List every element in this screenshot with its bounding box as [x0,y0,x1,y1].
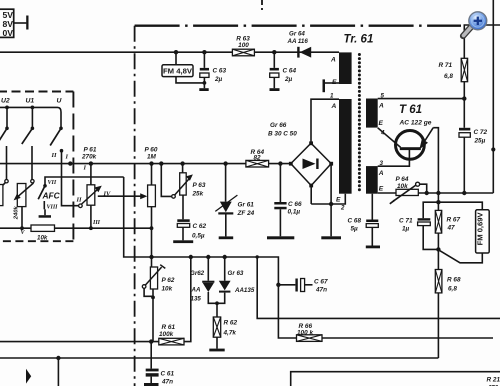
svg-text:U2: U2 [1,98,10,105]
magnifier icon [463,12,487,36]
svg-text:25µ: 25µ [474,138,486,145]
svg-text:B 30 C 50: B 30 C 50 [268,131,297,138]
svg-text:I: I [65,154,69,161]
svg-text:R 68: R 68 [447,277,461,284]
potentiometer P60 [148,161,156,257]
svg-text:AA135: AA135 [234,287,255,294]
svg-text:82: 82 [254,154,262,161]
svg-text:4: 4 [380,130,385,137]
resistor R68 [435,270,442,359]
rail y257 [124,177,297,338]
svg-text:4,7k: 4,7k [223,330,237,337]
svg-text:FM 0,69V: FM 0,69V [476,212,485,246]
svg-text:E: E [332,79,337,86]
wire: bottom bus y371.7 [291,372,500,386]
svg-text:2: 2 [340,205,345,212]
svg-text:E: E [379,186,384,193]
svg-text:47n: 47n [315,287,327,294]
node feeder [256,255,259,258]
svg-text:Gr 63: Gr 63 [228,270,244,277]
capacitor C62 [173,195,193,243]
potentiometer P63 [159,161,193,198]
svg-text:135: 135 [191,296,202,303]
svg-text:100 k: 100 k [297,330,313,337]
resistor R67 [435,193,441,270]
diode Gr62 [202,257,217,303]
wire: line A y341.6 [0,257,191,342]
svg-text:E: E [336,197,341,204]
svg-text:C 68: C 68 [348,217,362,224]
svg-text:0,5µ: 0,5µ [192,232,205,239]
node I [68,161,72,165]
terminal bar [26,16,28,30]
svg-text:A: A [331,103,337,110]
network C71 R67 top rail [423,202,482,218]
node P62 top [149,255,153,259]
wire: secondary E to output rail [378,192,494,194]
diode Gr64 [297,47,311,58]
svg-text:C 64: C 64 [283,68,297,75]
transformer secondary lower winding [366,166,378,194]
svg-text:2µ: 2µ [214,76,223,83]
svg-text:E: E [379,120,384,127]
wire: terminal 5 to R71 [378,98,465,100]
measuring point FM 0,69V box [438,210,489,263]
svg-text:25k: 25k [192,190,204,197]
wire: winding1 E to terminal [325,82,339,84]
capacitor C71 [418,218,439,249]
svg-text:R 61: R 61 [162,324,176,331]
svg-text:C 67: C 67 [314,279,328,286]
transformer secondary upper winding [366,99,378,128]
svg-text:Gr62: Gr62 [190,270,205,277]
svg-text:Gr 61: Gr 61 [238,202,255,209]
resistor R62 [209,303,224,351]
svg-text:III: III [92,220,101,226]
svg-text:C 66: C 66 [288,201,302,208]
node Gr63 top [223,255,227,259]
wire: feeder y318.4 [257,257,500,318]
capacitor C63 [200,50,209,88]
switch U2 [0,106,9,180]
svg-text:FM 4,8V: FM 4,8V [163,66,193,75]
diode (cut, next stage) [26,369,31,384]
wire: FM4.8V stem [175,52,177,65]
wire: V rail [0,227,152,229]
wire: branch down [57,358,59,386]
potentiometer P61 [79,161,102,230]
frame top right solid [464,25,500,58]
svg-text:6,8: 6,8 [448,286,457,293]
svg-text:3: 3 [380,160,384,167]
resistor R61 [159,338,184,345]
wire: IV link with arrow [98,193,148,199]
potentiometer P62 [142,257,165,342]
dash-dot divider top [261,0,263,11]
node Gr62 top [206,255,210,259]
potentiometer P64 [390,182,427,204]
voltage box terminal wire [14,22,27,24]
svg-text:5: 5 [381,93,385,100]
svg-text:R 71: R 71 [439,62,453,69]
node bridge bottom rail [329,202,333,206]
node C72 foot [462,191,466,195]
svg-text:47n: 47n [161,379,173,386]
svg-text:6,8: 6,8 [444,73,453,80]
svg-text:I: I [83,165,87,172]
svg-text:Tr. 61: Tr. 61 [344,34,374,46]
transformer core [358,53,361,191]
bridge rectifier Gr66 [289,141,333,187]
svg-text:270k: 270k [81,153,97,160]
wire: base to winding 3 [378,150,410,166]
svg-text:R 67: R 67 [447,217,461,224]
contact circle U2 [5,180,8,183]
transformer Tr61 primary lower winding [339,99,352,194]
node R61 top [189,255,193,259]
svg-text:VII: VII [48,180,57,186]
svg-text:AFC: AFC [42,191,61,201]
svg-text:10k: 10k [162,286,173,293]
capacitor C64 [270,50,279,88]
svg-text:C 62: C 62 [193,223,207,230]
node at FM4.8V stem [174,50,178,54]
capacitor C68 [366,194,380,249]
module border dash-dot left [134,26,136,386]
svg-text:Gr 66: Gr 66 [270,122,287,129]
wire: terminal 2 [311,194,345,204]
contact circle U1 [31,180,34,183]
wire: bridge right to ground [330,164,332,237]
svg-text:A: A [330,57,336,64]
svg-text:C 63: C 63 [213,68,227,75]
svg-text:100k: 100k [159,331,174,338]
switch unit dashed box [0,91,73,93]
resistor R64 [246,160,269,167]
svg-text:Gr 64: Gr 64 [289,31,305,38]
transistor T61 [396,128,434,160]
wire: supply line y52 [0,51,339,53]
svg-text:1M: 1M [147,153,157,160]
ground C64 [270,88,280,91]
switch bank rail [0,107,61,128]
capacitor C61 [144,339,159,386]
svg-text:10k: 10k [37,235,48,242]
svg-text:1µ: 1µ [402,226,410,233]
wire: emitter down [433,128,438,193]
node P64 wiper tie [425,191,429,195]
wire: collector to winding 4 [378,128,401,148]
svg-text:A: A [378,170,384,177]
node emitter rail [436,191,440,195]
svg-text:1: 1 [330,93,334,100]
terminal bar winding1 E [323,79,326,92]
node C71 top [436,200,440,204]
svg-text:P 63: P 63 [193,182,206,189]
svg-text:II: II [76,197,83,204]
node R71 bottom [462,96,466,100]
svg-text:100: 100 [238,42,249,49]
node C71 bottom [436,247,440,251]
wire: bridge bottom [310,186,312,205]
svg-text:C 61: C 61 [161,371,175,378]
wire: main bus y163.6 [0,163,291,165]
resistor R66 [297,335,494,342]
frame right vertical [492,0,494,193]
node diode junction [215,301,219,305]
resistor R63 [232,49,254,56]
svg-text:U1: U1 [26,98,35,105]
switch U [50,127,78,206]
capacitor C66 [267,161,294,239]
svg-text:AA 116: AA 116 [287,38,309,45]
node line B branch [56,356,60,360]
voltage box [0,9,14,37]
node right frame [491,147,495,151]
svg-text:AC 122 ge: AC 122 ge [399,120,432,127]
wire: terminal 1 to bridge top [311,99,339,143]
svg-text:5µ: 5µ [351,225,359,232]
ground C63 [199,88,208,91]
svg-text:47: 47 [447,225,456,232]
ground bridge [321,236,341,239]
svg-text:0V: 0V [2,28,13,38]
transformer Tr61 primary upper winding [339,52,352,84]
node C63 foot [203,81,207,85]
wire: FM4.8V to C63 foot [176,77,204,83]
capacitor C72 [459,99,470,193]
zener Gr61 [215,161,237,239]
trimmer 240k [14,183,34,228]
svg-text:240k: 240k [13,205,19,220]
resistor (edge, cut) [0,185,3,206]
svg-text:AA: AA [191,287,201,294]
node 240k foot [20,226,24,230]
diode Gr63 [217,257,231,303]
svg-text:IV: IV [103,191,112,198]
svg-text:R 21: R 21 [487,377,500,384]
module border dashed top [135,25,461,27]
svg-text:T 61: T 61 [399,104,422,116]
svg-text:2µ: 2µ [284,76,293,83]
svg-text:II: II [51,152,58,159]
resistor 10k [31,225,55,231]
resistor R71 [461,58,467,98]
svg-text:R 62: R 62 [224,320,238,327]
svg-text:ZF 24: ZF 24 [237,210,255,217]
capacitor C67 [276,279,312,292]
switch U1 [22,106,35,180]
switch VII/AFC [38,177,124,218]
svg-text:10k: 10k [397,183,408,190]
svg-text:C 72: C 72 [474,129,488,136]
svg-text:A: A [378,103,384,110]
lever stub U2 lower [0,183,5,191]
svg-text:0,1µ: 0,1µ [288,209,301,216]
wire: line B y358 [0,357,438,359]
svg-text:VIII: VIII [47,205,59,211]
svg-text:C 71: C 71 [399,218,413,225]
FM 4,8V box [162,65,193,77]
svg-text:P 62: P 62 [162,277,175,284]
